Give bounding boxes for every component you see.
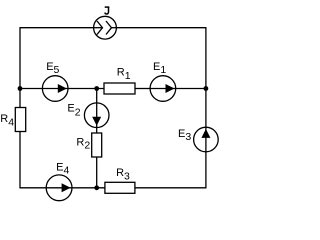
wire top-right segment (116, 27, 205, 29)
wire branch node to E2 (96, 89, 98, 103)
resistor R2 (92, 133, 102, 157)
wire E1 to right vertical (176, 88, 206, 90)
wire R2 to bottom (96, 157, 98, 188)
resistor R1 (104, 83, 135, 94)
node at branch and bottom wire (94, 185, 99, 190)
resistor R3 (105, 182, 135, 193)
EMF source E3 (194, 127, 219, 152)
wire right vertical to E3 (205, 89, 207, 128)
wire left vertical upper (19, 27, 21, 88)
wire right vertical upper (205, 27, 207, 88)
resistor R4 (15, 108, 25, 132)
node at right vertical and row2 (204, 86, 209, 91)
label J (105, 7, 110, 14)
node at left vertical and row2 (18, 86, 23, 91)
EMF source E4 (46, 175, 72, 201)
wire left vertical to R4 (19, 89, 21, 108)
wire R3 to right vertical (135, 187, 206, 189)
wire E2 to R2 (96, 128, 98, 134)
EMF source E5 (42, 76, 68, 102)
wire E4 to R3 (72, 187, 105, 189)
EMF source E1 (150, 76, 176, 102)
wire E5 to R1 (68, 88, 104, 90)
EMF source E2 (84, 103, 109, 128)
wire top-left segment (20, 27, 94, 29)
node at branch and row2 (94, 86, 99, 91)
current source J (94, 16, 117, 39)
wire left vertical below R4 (19, 132, 21, 189)
wire row2 left to E5 (20, 88, 42, 90)
wire right vertical below E3 (205, 152, 207, 189)
wire bottom left to E4 (20, 187, 46, 189)
wire R1 to E1 (135, 88, 150, 90)
